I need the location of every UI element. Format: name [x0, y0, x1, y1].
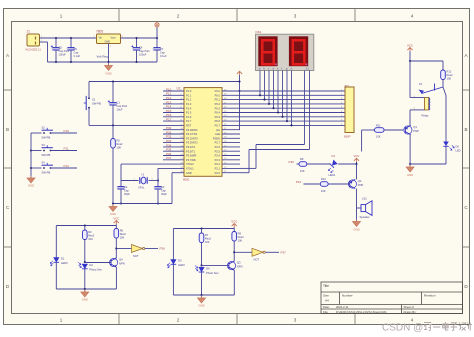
svg-text:XTAL: XTAL — [138, 185, 145, 189]
svg-text:R9: R9 — [300, 157, 304, 161]
svg-text:P1.4: P1.4 — [186, 106, 192, 110]
svg-text:Cap: Cap — [160, 51, 165, 55]
svg-text:GND: GND — [105, 41, 111, 44]
svg-text:Drawn By:: Drawn By: — [404, 310, 417, 314]
svg-text:2: 2 — [177, 14, 180, 19]
transistor Q1 PNP — [404, 126, 412, 134]
LED D3 — [172, 229, 174, 260]
display common pin wire digit 1 — [304, 71, 306, 145]
svg-text:Res2: Res2 — [238, 235, 245, 239]
svg-text:C4: C4 — [139, 46, 143, 50]
wire collector to NOT gate — [116, 248, 131, 250]
svg-text:Q4: Q4 — [119, 257, 123, 261]
svg-text:CSDN @: CSDN @ — [382, 323, 423, 334]
svg-text:Cap: Cap — [74, 51, 79, 55]
wire XTAL2 to crystal — [121, 163, 184, 165]
crystal Y1 — [121, 180, 139, 182]
svg-text:S1: S1 — [92, 98, 96, 102]
svg-text:10K: 10K — [117, 146, 122, 150]
svg-text:P3.3/INT1: P3.3/INT1 — [186, 141, 198, 145]
svg-text:PSEN: PSEN — [213, 136, 220, 140]
svg-text:R11: R11 — [376, 124, 381, 128]
svg-text:R8: R8 — [238, 232, 242, 236]
svg-text:4: 4 — [411, 14, 414, 19]
wire NOT gate output net P36 — [145, 248, 158, 250]
svg-text:Speaker: Speaker — [360, 215, 370, 219]
svg-text:P1.0: P1.0 — [186, 89, 192, 93]
wire reset net to RST pin — [89, 124, 184, 126]
wire sensor block 2 bottom rail — [173, 294, 234, 296]
wire R11 to Q1 base — [384, 129, 403, 131]
svg-text:P3.5/T1: P3.5/T1 — [186, 149, 196, 153]
svg-text:R2: R2 — [117, 139, 121, 143]
svg-text:10K: 10K — [238, 239, 243, 243]
svg-text:Vin: Vin — [99, 37, 103, 40]
wire regulator output rail — [121, 37, 158, 39]
resistor R11 10K relay drive — [362, 129, 375, 131]
svg-text:P1.3: P1.3 — [186, 102, 192, 106]
display segment pin wires to P0 bus with junctions — [259, 71, 261, 96]
resistor R2 10K reset pulldown — [112, 125, 114, 138]
svg-text:GND: GND — [28, 184, 34, 188]
svg-text:LS1: LS1 — [362, 197, 367, 201]
svg-text:P30: P30 — [289, 160, 295, 164]
wire sensor block 1 bottom rail — [56, 288, 116, 290]
svg-text:100uF: 100uF — [139, 53, 147, 57]
svg-text:Q1: Q1 — [413, 125, 417, 129]
svg-text:Number: Number — [342, 294, 353, 298]
svg-text:NPN: NPN — [237, 265, 243, 269]
svg-text:GND: GND — [186, 171, 192, 175]
svg-text:P1.1: P1.1 — [186, 93, 192, 97]
svg-text:C6: C6 — [74, 47, 78, 51]
resistor R9 10K — [299, 162, 307, 167]
MCU right pin stubs — [222, 90, 240, 92]
wire Q1 emitter down — [409, 135, 411, 164]
power port VCC arrow at MCU right — [239, 75, 241, 82]
svg-text:R10: R10 — [321, 177, 326, 181]
svg-text:GND: GND — [105, 72, 111, 76]
ground symbol buttons — [27, 178, 35, 183]
svg-text:Size: Size — [323, 294, 329, 298]
svg-text:10K: 10K — [88, 237, 93, 241]
svg-text:GND: GND — [110, 212, 116, 216]
svg-text:Res2: Res2 — [88, 234, 95, 238]
svg-text:XTAL1: XTAL1 — [186, 167, 194, 171]
ground symbol power section — [108, 62, 110, 66]
svg-text:P2.0: P2.0 — [215, 171, 221, 175]
svg-text:SW-PB: SW-PB — [42, 153, 51, 157]
wire coil bottom to Q1 collector — [410, 109, 425, 111]
photo sensor D2 — [82, 264, 88, 269]
svg-text:LED0: LED0 — [178, 263, 185, 267]
svg-text:Cap Pol1: Cap Pol1 — [139, 49, 150, 53]
svg-text:P1.7: P1.7 — [186, 119, 192, 123]
svg-text:8051: 8051 — [183, 178, 190, 182]
resistor R3 10K — [84, 226, 86, 231]
svg-text:Res2: Res2 — [117, 142, 124, 146]
svg-text:Photo Sen: Photo Sen — [89, 268, 102, 272]
resistor R8 10K — [233, 229, 235, 232]
svg-text:P11: P11 — [64, 146, 69, 150]
svg-text:Res2: Res2 — [120, 232, 127, 236]
svg-text:P17: P17 — [166, 118, 172, 122]
svg-text:P37: P37 — [281, 251, 287, 255]
svg-text:PNP: PNP — [413, 129, 419, 133]
switch S2 with net P10 — [43, 132, 45, 134]
svg-text:3: 3 — [294, 14, 297, 19]
svg-text:ALE: ALE — [215, 132, 220, 136]
wire sensor block 1 top rail — [56, 225, 116, 227]
svg-text:P3.1/TXD: P3.1/TXD — [186, 132, 197, 136]
relay K1 coil — [409, 61, 411, 98]
svg-text:R6: R6 — [120, 229, 124, 233]
svg-text:S3: S3 — [42, 143, 46, 147]
capacitor C2 30pF — [120, 181, 122, 187]
svg-text:Cap: Cap — [124, 189, 129, 193]
LED D6 relay indicator — [445, 96, 447, 142]
svg-text:C1: C1 — [117, 101, 121, 105]
title block — [321, 282, 463, 314]
wire MCU GND pin down — [172, 172, 184, 174]
capacitor C4 100uF output electrolytic — [136, 38, 138, 48]
svg-text:A4: A4 — [325, 299, 329, 303]
display common pin wire digit 2 — [309, 71, 311, 150]
svg-text:C2: C2 — [124, 185, 128, 189]
svg-text:Date:: Date: — [323, 305, 330, 309]
wire NOT gate 2 output net P37 — [265, 251, 279, 253]
wire Q2 emitter to VCC — [356, 164, 358, 179]
svg-text:C5: C5 — [59, 46, 63, 50]
svg-text:Q2: Q2 — [358, 179, 362, 183]
svg-text:K1: K1 — [419, 82, 423, 86]
resistor R10 10K — [320, 182, 328, 187]
svg-text:D3: D3 — [178, 259, 182, 263]
svg-text:D4: D4 — [332, 154, 336, 158]
speaker LS1 — [361, 205, 366, 212]
svg-text:File:: File: — [323, 310, 329, 314]
svg-text:P0.2: P0.2 — [215, 102, 221, 106]
svg-text:B: B — [464, 127, 467, 132]
svg-text:Volt Reg: Volt Reg — [97, 55, 109, 59]
svg-text:NOT: NOT — [254, 258, 260, 262]
svg-text:D:\2022KCSJ\13-29SJ-2-DZSJ-She: D:\2022KCSJ\13-29SJ-2-DZSJ-Sheet1.Ddb — [336, 310, 387, 314]
svg-text:Y1: Y1 — [141, 173, 145, 177]
NOT gate U3 — [252, 248, 263, 256]
svg-text:10K: 10K — [300, 169, 305, 173]
svg-text:Res2: Res2 — [205, 237, 212, 241]
svg-text:P2.7: P2.7 — [215, 141, 221, 145]
svg-text:R12: R12 — [447, 70, 452, 74]
wire VCC rail over MCU — [89, 81, 240, 83]
svg-text:Photo Sen: Photo Sen — [206, 271, 219, 275]
svg-text:Sheet of: Sheet of — [404, 305, 415, 309]
svg-text:P0.4: P0.4 — [215, 111, 221, 115]
svg-text:D4: D4 — [206, 266, 210, 270]
svg-text:P12: P12 — [64, 164, 70, 168]
svg-text:P0.1: P0.1 — [215, 98, 221, 102]
svg-text:P1.2: P1.2 — [186, 98, 192, 102]
ground symbol speaker — [356, 208, 358, 222]
svg-text:RST: RST — [186, 124, 192, 128]
NOT gate U2 — [132, 245, 143, 253]
svg-text:R3: R3 — [88, 230, 92, 234]
svg-text:P2.5: P2.5 — [215, 149, 221, 153]
resistor R6 10K — [115, 226, 117, 229]
power port VCC circle style — [156, 27, 158, 38]
svg-text:2022-2-11: 2022-2-11 — [336, 305, 349, 309]
wire Q3 emitter to rail — [233, 270, 235, 295]
wire Q2 collector to speaker — [356, 189, 358, 208]
wire XTAL1 to crystal — [158, 167, 184, 169]
svg-text:P2.1: P2.1 — [215, 167, 221, 171]
svg-text:C7: C7 — [160, 47, 164, 51]
svg-text:Q3: Q3 — [237, 260, 241, 264]
svg-text:10K: 10K — [376, 134, 381, 138]
wire regulator ground pin — [108, 44, 110, 63]
svg-text:P10: P10 — [64, 129, 70, 133]
svg-text:P0.7: P0.7 — [215, 124, 221, 128]
wire button column — [30, 133, 32, 178]
svg-text:10K: 10K — [447, 77, 452, 81]
svg-text:S4: S4 — [42, 160, 46, 164]
svg-text:NPN: NPN — [119, 262, 125, 266]
capacitor C6 0.1uF input — [70, 38, 72, 48]
svg-text:DS1: DS1 — [256, 30, 262, 34]
svg-text:Vout: Vout — [111, 37, 116, 40]
svg-text:8SIP: 8SIP — [344, 135, 351, 139]
svg-text:10K: 10K — [321, 189, 326, 193]
svg-text:GND: GND — [198, 304, 204, 308]
wire relay VCC junction — [410, 60, 443, 62]
svg-text:1: 1 — [60, 14, 63, 19]
svg-text:0.1uF: 0.1uF — [74, 54, 81, 58]
svg-text:SW-PB: SW-PB — [42, 171, 51, 175]
svg-text:P37: P37 — [166, 156, 172, 160]
svg-text:Res2: Res2 — [447, 73, 454, 77]
svg-text:30pF: 30pF — [161, 192, 167, 196]
resistor R7 10K — [201, 229, 203, 234]
wire crystal ground rail — [113, 203, 172, 205]
svg-text:P0.3: P0.3 — [215, 106, 221, 110]
svg-text:Relay: Relay — [422, 114, 430, 118]
svg-text:XTAL2: XTAL2 — [186, 162, 194, 166]
svg-text:P3.6/WR: P3.6/WR — [186, 154, 197, 158]
svg-text:R7: R7 — [205, 233, 209, 237]
transistor Q4 NPN — [110, 258, 118, 266]
svg-text:SW-PB: SW-PB — [92, 102, 101, 106]
svg-text:EA: EA — [217, 128, 221, 132]
svg-text:P3.4/T0: P3.4/T0 — [186, 145, 196, 149]
svg-text:2: 2 — [177, 318, 180, 323]
svg-text:Title: Title — [323, 284, 329, 288]
svg-text:P3.0/RXD: P3.0/RXD — [186, 128, 198, 132]
svg-text:P2.4: P2.4 — [215, 154, 221, 158]
svg-text:P0.0: P0.0 — [215, 93, 221, 97]
wire relay bottom rail — [410, 163, 446, 165]
LED D5 indicator — [330, 160, 338, 168]
wire sensor block 2 top rail — [173, 228, 234, 230]
svg-text:P36: P36 — [160, 247, 166, 251]
svg-text:P3.7/RD: P3.7/RD — [186, 158, 196, 162]
svg-text:10uF: 10uF — [117, 108, 123, 112]
capacitor C3 30pF — [157, 181, 159, 187]
svg-text:1: 1 — [60, 318, 63, 323]
svg-text:D1: D1 — [61, 257, 65, 261]
ground symbol relay — [409, 164, 411, 167]
svg-text:7805: 7805 — [96, 30, 103, 34]
svg-text:VCC: VCC — [215, 89, 221, 93]
wire J1 pin2 down to ground rail — [40, 41, 48, 43]
svg-text:Revision: Revision — [424, 294, 436, 298]
svg-text:P1.5: P1.5 — [186, 111, 192, 115]
wire Q4 base — [84, 261, 86, 264]
svg-text:Cap: Cap — [161, 189, 166, 193]
svg-text:S2: S2 — [42, 125, 46, 129]
svg-text:GND: GND — [353, 228, 359, 232]
transistor Q2 PNP — [348, 180, 356, 188]
wire R11 input stub — [361, 130, 363, 152]
wire VCC vertical to EA pin — [239, 82, 241, 130]
wire collector to NOT gate 2 — [234, 251, 252, 253]
wire Q3 base — [202, 264, 229, 266]
svg-text:P0.6: P0.6 — [215, 119, 221, 123]
svg-text:P2.3: P2.3 — [215, 158, 221, 162]
svg-text:NOT: NOT — [133, 254, 139, 258]
svg-text:LED3: LED3 — [329, 173, 336, 177]
svg-text:10K: 10K — [120, 236, 125, 240]
svg-text:100uF: 100uF — [59, 53, 67, 57]
ground symbol sensor block 1 — [84, 289, 86, 292]
ground symbol sensor block 2 — [201, 295, 203, 298]
svg-text:Cap Pol1: Cap Pol1 — [117, 104, 128, 108]
svg-text:P3.2/INT0: P3.2/INT0 — [186, 136, 198, 140]
svg-text:KLD-0202-J1: KLD-0202-J1 — [26, 48, 42, 52]
svg-text:GND: GND — [82, 298, 88, 302]
svg-text:P2.6: P2.6 — [215, 145, 221, 149]
svg-text:J1: J1 — [27, 30, 31, 34]
svg-text:LED0: LED0 — [61, 261, 68, 265]
svg-text:PNP: PNP — [358, 183, 364, 187]
capacitor C1 10uF reset — [112, 82, 114, 103]
resistor R12 10K — [442, 61, 444, 70]
svg-text:GND: GND — [407, 173, 413, 177]
transistor Q3 NPN — [227, 262, 235, 270]
svg-text:B: B — [6, 127, 9, 132]
LED D1 — [55, 226, 57, 258]
wire VCC row to JP1 common pin — [240, 90, 346, 92]
svg-text:3: 3 — [294, 318, 297, 323]
svg-text:D2: D2 — [89, 263, 93, 267]
photo sensor D4 — [199, 267, 205, 272]
svg-text:P0.5: P0.5 — [215, 115, 221, 119]
switch S4 with net P12 — [31, 167, 42, 169]
wire J1 pin1 to regulator input rail — [40, 37, 98, 39]
wire Q4 emitter to rail — [115, 267, 117, 289]
svg-text:D6: D6 — [456, 145, 460, 149]
svg-text:10K: 10K — [205, 240, 210, 244]
svg-text:C3: C3 — [161, 185, 165, 189]
capacitor C7 0.1uF output — [156, 38, 158, 48]
svg-text:P1.6: P1.6 — [186, 115, 192, 119]
svg-text:SW-PB: SW-PB — [42, 136, 51, 140]
svg-text:P31: P31 — [296, 180, 302, 184]
switch S3 with net P11 — [31, 150, 42, 152]
svg-text:30pF: 30pF — [124, 192, 130, 196]
svg-text:P2.2: P2.2 — [215, 162, 221, 166]
capacitor C5 100uF input electrolytic — [55, 38, 57, 48]
svg-text:0.1uF: 0.1uF — [160, 54, 167, 58]
ground symbol crystal — [112, 204, 114, 207]
svg-text:LED: LED — [456, 149, 461, 153]
